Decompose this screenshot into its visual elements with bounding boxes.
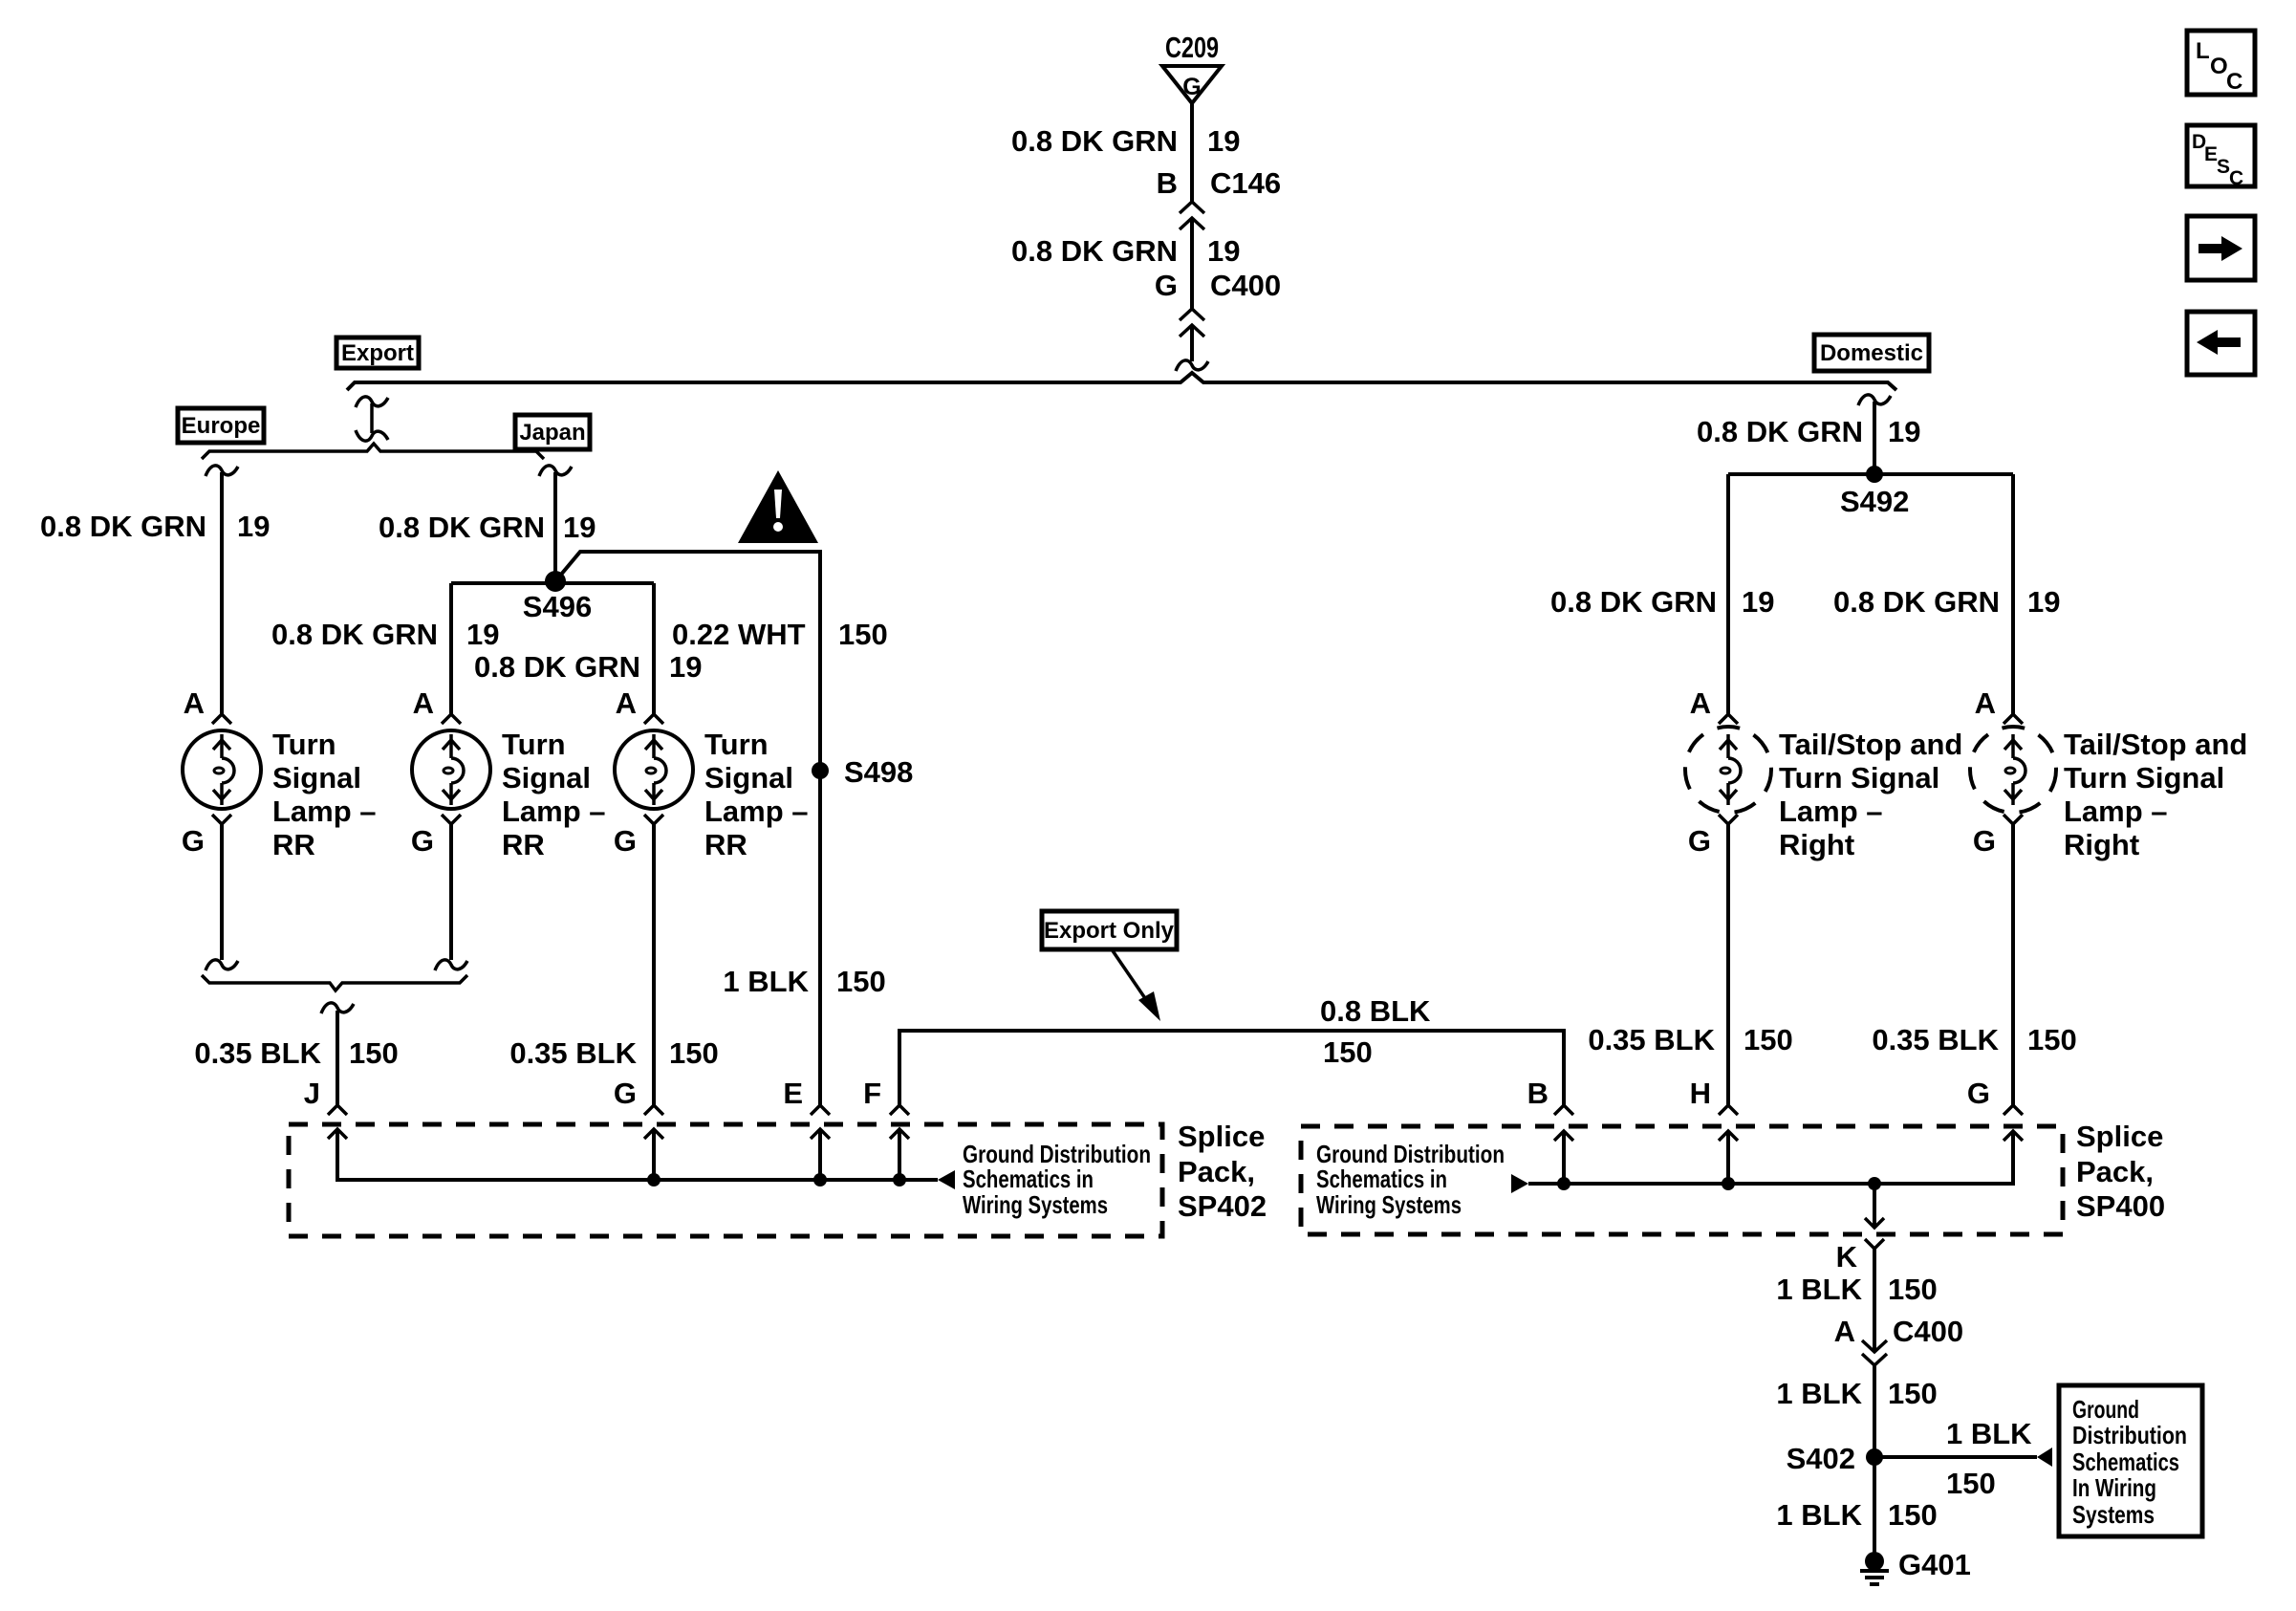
terminal chevron pin J [328,1105,347,1115]
connector C146 symbol [1180,202,1204,229]
svg-text:0.8 DK GRN: 0.8 DK GRN [40,510,206,543]
connector C209 triangle with G [1162,66,1222,103]
svg-text:150: 150 [1946,1467,1996,1500]
svg-text:Lamp –: Lamp – [502,795,606,828]
svg-text:C400: C400 [1893,1315,1963,1348]
svg-text:150: 150 [1744,1023,1793,1056]
junction dot G [647,1173,661,1186]
export option bus tap symbol [356,397,388,441]
svg-text:Europe: Europe [182,413,261,439]
svg-text:19: 19 [1207,234,1240,268]
svg-text:0.8 DK GRN: 0.8 DK GRN [1833,585,2000,619]
terminal chevron [644,714,663,724]
wire japan drop [553,472,557,581]
SP402 internal wire J run [337,1129,938,1180]
svg-text:A: A [616,686,637,720]
wire down to S402 [1873,1365,1876,1457]
wire E entry stub with arrowhead [811,1129,830,1180]
svg-text:G: G [1182,74,1201,100]
wire lamp2 down [449,824,453,960]
squiggle japan wire top [539,466,572,476]
svg-text:0.35 BLK: 0.35 BLK [194,1036,321,1070]
svg-text:Turn Signal: Turn Signal [1779,761,1939,795]
svg-text:RR: RR [272,828,315,861]
Export label box [336,337,419,368]
svg-text:H: H [1690,1077,1711,1110]
lamp L4 Tail/Stop and Turn Signal Lamp Right [1685,727,1771,813]
svg-text:Lamp –: Lamp – [2064,795,2168,828]
svg-text:C: C [2226,69,2242,95]
svg-text:150: 150 [838,618,888,651]
arrowhead G entry [2004,1131,2023,1141]
svg-text:S402: S402 [1787,1442,1855,1475]
svg-text:Tail/Stop and: Tail/Stop and [2064,728,2247,761]
svg-text:RR: RR [704,828,747,861]
svg-text:0.8 DK GRN: 0.8 DK GRN [1550,585,1717,619]
svg-text:Turn Signal: Turn Signal [2064,761,2224,795]
Export Only label box [1042,911,1177,949]
wire J drop [336,1011,339,1105]
wire C209 down [1190,101,1194,202]
svg-text:G: G [614,1077,637,1110]
wire K exit stub [1873,1184,1876,1228]
svg-text:Pack,: Pack, [2076,1155,2154,1188]
icon box right arrow [2187,216,2255,280]
svg-text:0.35 BLK: 0.35 BLK [1872,1023,1999,1056]
svg-text:19: 19 [669,650,702,684]
squiggle [1176,360,1208,371]
svg-text:Wiring Systems: Wiring Systems [963,1190,1108,1219]
splice S492 bar [1728,472,2013,476]
Japan label box [515,415,590,449]
squiggle [435,960,467,970]
brace export split [202,444,544,459]
Europe label box [178,408,264,443]
svg-text:C400: C400 [1210,269,1281,302]
icon box LOC [2187,31,2255,95]
svg-text:0.35 BLK: 0.35 BLK [1588,1023,1715,1056]
wire S402 down [1873,1457,1876,1555]
icon box DESC [2187,125,2255,189]
SP400 internal wire run [1528,1131,2013,1184]
wire domestic drop [1873,402,1876,473]
svg-text:1 BLK: 1 BLK [1776,1377,1862,1410]
svg-text:Wiring Systems: Wiring Systems [1316,1190,1462,1219]
svg-text:B: B [1157,166,1178,200]
svg-text:A: A [413,686,434,720]
svg-text:19: 19 [237,510,270,543]
splice S402 dot [1866,1448,1883,1466]
svg-text:Lamp –: Lamp – [272,795,377,828]
svg-text:C146: C146 [1210,166,1281,200]
svg-text:0.8 DK GRN: 0.8 DK GRN [1011,124,1178,158]
terminal chevron pin F [890,1105,909,1115]
svg-text:19: 19 [563,511,596,544]
wire 0.22 WHT down [818,552,822,1105]
wire europe drop [220,472,224,714]
svg-text:1 BLK: 1 BLK [1776,1498,1862,1532]
svg-text:S492: S492 [1840,485,1909,518]
wire G entry stub with arrowhead [644,1129,663,1180]
svg-text:0.22 WHT: 0.22 WHT [672,618,806,651]
wire lamp3 down to splice pack [652,824,656,1105]
terminal chevron [644,815,663,824]
svg-text:Distribution: Distribution [2072,1421,2187,1449]
svg-text:E: E [783,1077,803,1110]
off-page triangle from ground distribution [1511,1174,1528,1193]
svg-text:19: 19 [466,618,499,651]
svg-text:Right: Right [1779,828,1854,861]
svg-text:150: 150 [2027,1023,2077,1056]
svg-text:150: 150 [1888,1498,1938,1532]
svg-text:Japan: Japan [519,420,585,446]
wire lamp3 drop [652,583,656,714]
svg-text:Export Only: Export Only [1044,918,1175,944]
terminal chevron [442,714,461,724]
lamp L1 Turn Signal Lamp RR (Europe) [183,730,261,809]
terminal chevron pin H [1719,1105,1738,1115]
svg-text:C209: C209 [1165,31,1219,64]
svg-text:1 BLK: 1 BLK [1776,1273,1862,1306]
wire H entry stub with arrowhead [1719,1131,1738,1184]
squiggle [206,960,238,970]
wire B entry stub with arrowhead [1554,1131,1573,1184]
svg-text:A: A [1834,1315,1855,1348]
svg-text:0.35 BLK: 0.35 BLK [509,1036,637,1070]
svg-text:G: G [1155,269,1178,302]
wire S402 branch right [1874,1455,2037,1459]
lamp L2 Turn Signal Lamp RR (Japan) [412,730,490,809]
terminal chevron pin E [811,1105,830,1115]
svg-text:0.8 DK GRN: 0.8 DK GRN [379,511,545,544]
svg-text:J: J [304,1077,320,1110]
svg-text:G401: G401 [1898,1548,1971,1581]
svg-text:G: G [1973,824,1996,858]
SP402 dashed box [289,1124,1162,1236]
terminal chevron [212,714,231,724]
svg-text:150: 150 [669,1036,719,1070]
wire [1190,218,1194,309]
lamp L5 Tail/Stop and Turn Signal Lamp Right [1970,727,2056,813]
squiggle domestic wire top [1858,395,1891,405]
svg-text:Signal: Signal [502,761,591,795]
svg-text:B: B [1527,1077,1549,1110]
svg-text:Schematics in: Schematics in [963,1165,1094,1193]
svg-text:G: G [1967,1077,1990,1110]
svg-text:Turn: Turn [704,728,769,761]
svg-text:0.8 DK GRN: 0.8 DK GRN [1011,234,1178,268]
svg-text:G: G [614,824,637,858]
svg-text:1 BLK: 1 BLK [723,965,809,998]
brace europe+japan ground join [202,975,467,991]
svg-text:0.8 BLK: 0.8 BLK [1320,994,1431,1028]
svg-text:0.8 DK GRN: 0.8 DK GRN [474,650,640,684]
off-page triangle to ground distribution [938,1170,955,1189]
svg-text:Lamp –: Lamp – [1779,795,1883,828]
svg-text:150: 150 [349,1036,399,1070]
svg-text:Signal: Signal [272,761,361,795]
svg-text:RR: RR [502,828,545,861]
wire G drop [2011,824,2015,1105]
arrow from Export Only to wire [1112,949,1160,1021]
svg-text:Schematics in: Schematics in [1316,1165,1447,1193]
wire diagonal tap to 0.22 WHT [555,552,822,581]
svg-text:19: 19 [1742,585,1774,619]
svg-text:G: G [182,824,205,858]
svg-text:Domestic: Domestic [1820,340,1923,366]
svg-text:L: L [2196,38,2210,64]
wire right lamp A drop [1726,474,1730,714]
svg-text:E: E [2204,143,2218,165]
wire lamp2 drop [449,583,453,714]
junction dot B [1557,1177,1570,1190]
wire lamp1 down [220,824,224,960]
svg-text:Pack,: Pack, [1178,1155,1255,1188]
svg-text:150: 150 [1323,1035,1373,1069]
svg-text:150: 150 [1888,1377,1938,1410]
svg-text:S: S [2217,156,2230,178]
svg-text:150: 150 [1888,1273,1938,1306]
squiggle J wire top [321,1003,354,1013]
svg-text:S498: S498 [844,755,913,789]
svg-text:Lamp –: Lamp – [704,795,809,828]
wire F entry stub with arrowhead [890,1129,909,1180]
svg-text:Ground: Ground [2072,1395,2139,1424]
wire main bus [347,373,1896,390]
svg-text:Signal: Signal [704,761,793,795]
svg-text:O: O [2210,54,2228,79]
wire H drop [1726,824,1730,1105]
squiggle europe wire top [206,466,238,476]
svg-text:SP402: SP402 [1178,1189,1267,1223]
terminal chevron K [1865,1239,1884,1249]
svg-text:Systems: Systems [2072,1500,2155,1529]
connector C400 symbol [1180,309,1204,337]
connector C400 symbol down [1862,1340,1887,1365]
svg-text:A: A [1975,686,1996,720]
svg-text:Turn: Turn [272,728,336,761]
splice S496 bar [451,581,654,585]
terminal chevron pin G [644,1105,663,1115]
junction dot E [813,1173,827,1186]
junction dot F [893,1173,906,1186]
svg-text:19: 19 [2027,585,2060,619]
splice S496 dot [545,571,566,592]
svg-text:Splice: Splice [2076,1120,2163,1153]
terminal chevron [442,815,461,824]
svg-text:0.8 DK GRN: 0.8 DK GRN [271,618,438,651]
svg-text:G: G [1688,824,1711,858]
arrowhead K exit (down) [1865,1218,1884,1228]
svg-text:A: A [184,686,205,720]
junction dot H [1722,1177,1735,1190]
svg-text:SP400: SP400 [2076,1189,2165,1223]
wire K down [1873,1249,1876,1352]
svg-text:Splice: Splice [1178,1120,1265,1153]
svg-text:Export: Export [341,340,414,366]
svg-text:Schematics: Schematics [2072,1448,2179,1476]
svg-text:F: F [863,1077,881,1110]
terminal chevron [212,815,231,824]
svg-text:Tail/Stop and: Tail/Stop and [1779,728,1962,761]
off-page triangle to ground distribution [2037,1448,2052,1467]
svg-text:In Wiring: In Wiring [2072,1473,2156,1502]
svg-text:S496: S496 [523,590,592,623]
lamp L3 Turn Signal Lamp RR [615,730,693,809]
ground G401 [1860,1552,1889,1584]
svg-text:K: K [1836,1240,1858,1274]
svg-text:G: G [411,824,434,858]
svg-text:Right: Right [2064,828,2139,861]
svg-text:A: A [1690,686,1711,720]
svg-text:19: 19 [1207,124,1240,158]
wire F to B [899,1031,1564,1105]
splice S492 dot [1866,466,1883,483]
arrowhead J entry [328,1129,347,1139]
terminal chevron pin B [1554,1105,1573,1115]
icon box left arrow [2187,312,2255,375]
svg-text:1 BLK: 1 BLK [1946,1417,2032,1450]
svg-text:Turn: Turn [502,728,566,761]
svg-text:0.8 DK GRN: 0.8 DK GRN [1697,415,1863,448]
svg-text:19: 19 [1888,415,1920,448]
wire [1190,325,1194,361]
svg-text:150: 150 [836,965,886,998]
splice S498 dot [812,762,829,779]
SP400 dashed box [1301,1126,2063,1234]
Domestic label box [1814,335,1929,371]
Ground Distribution box [2059,1385,2202,1536]
junction dot K [1868,1177,1881,1190]
terminal chevron pin G [2004,1105,2023,1115]
svg-text:C: C [2229,167,2243,189]
